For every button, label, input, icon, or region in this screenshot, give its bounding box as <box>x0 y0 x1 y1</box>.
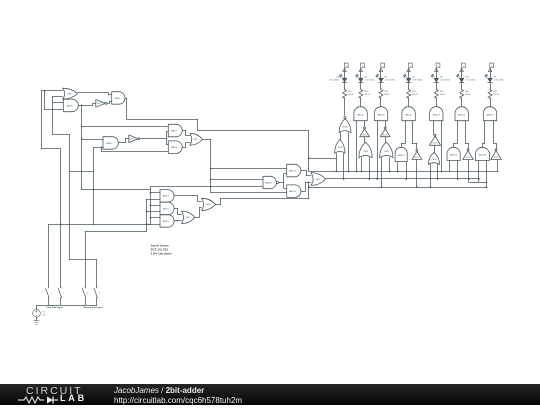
and-gate AND8 <box>168 141 182 154</box>
svg-text:NOT3: NOT3 <box>466 157 471 159</box>
wire LED to resistor R15 <box>490 82 492 89</box>
node junction OR6b bus2 <box>343 178 345 180</box>
or-gate OR9 <box>380 142 393 158</box>
wire AND18 input B drop <box>486 161 488 188</box>
svg-text:AND14: AND14 <box>377 113 385 116</box>
wire OR4 output to OR5 <box>195 208 202 218</box>
wire AND5 output run <box>125 98 198 120</box>
wire flag to LED D7 <box>408 72 410 78</box>
wire NOT1 output to AND5 <box>107 101 112 103</box>
and-gate AND2 <box>160 202 174 215</box>
label D9 value <box>494 77 505 82</box>
inverter NOT6 <box>491 149 502 160</box>
wire NOT5 input drop <box>416 159 418 187</box>
wire AND20 input A drop <box>449 161 451 172</box>
label D7 value <box>412 77 423 82</box>
wire AND10 output to OR3 <box>301 171 311 176</box>
inverter NOT3 <box>463 149 474 160</box>
svg-text:NOT7: NOT7 <box>362 134 367 136</box>
wire LED to resistor R10 <box>344 82 346 89</box>
wire AND5 net vertical drop <box>308 131 310 172</box>
node flag column 5 <box>434 63 440 72</box>
wire SW4 horizontal <box>70 259 97 261</box>
wire SW2 vertical <box>60 149 62 288</box>
wire LED to resistor R11 <box>360 82 362 89</box>
wire AND4 output to NOT2 <box>118 139 129 143</box>
node junction OR11a bus3 <box>430 186 432 188</box>
resistor R14 <box>434 89 438 99</box>
switch SW2 <box>58 287 64 305</box>
wire resistor to AND19 <box>490 98 492 107</box>
svg-text:a: a <box>438 66 439 68</box>
svg-text:AND20: AND20 <box>450 153 458 156</box>
LED D10 <box>457 75 464 83</box>
logo diode symbol <box>47 397 53 404</box>
and-gate AND16 <box>402 107 415 121</box>
svg-text:AND17: AND17 <box>433 113 441 116</box>
and-gate AND1 <box>160 190 174 203</box>
inverter NOT4 <box>429 134 440 145</box>
inverter NOT5 <box>412 149 422 159</box>
svg-text:AND21: AND21 <box>458 113 466 116</box>
wire OR6 input A drop <box>336 154 338 172</box>
wire flag to LED D10 <box>461 72 463 78</box>
node junctions on OR2 vertical <box>210 168 212 188</box>
switch SW1 <box>46 287 52 305</box>
svg-text:NOT8: NOT8 <box>383 134 388 136</box>
node junction OR9b bus1 <box>389 171 391 173</box>
nor-gate NOR2 <box>339 117 351 133</box>
inverter NOT8 <box>380 127 390 137</box>
node junction NOR2b bus1 <box>348 171 350 173</box>
LED D6 <box>376 75 383 83</box>
logo LAB text <box>60 393 87 403</box>
svg-text:AND19: AND19 <box>486 113 494 116</box>
svg-text:OR8: OR8 <box>363 151 368 153</box>
label V1 value <box>42 311 46 316</box>
or-gate OR2 <box>190 133 203 145</box>
resistor R13 <box>407 89 411 99</box>
wire vertical x93.6 <box>93 147 95 224</box>
wire NOT3 input drop <box>468 160 470 183</box>
wire OR6 output to NOR2 <box>340 133 342 140</box>
label D5 value <box>364 77 375 82</box>
wire AND6 output vertical <box>81 105 83 189</box>
label First 2-bit input <box>47 306 63 309</box>
wire OR8 input B drop <box>369 158 371 179</box>
wire bus1 y171.5 <box>309 171 498 173</box>
and-gate AND15 <box>395 147 407 161</box>
wire bus4 segment y182.3 <box>469 182 487 184</box>
wire SW1 horizontal to cluster C <box>48 224 150 226</box>
wire AND18 input A drop <box>478 161 480 183</box>
svg-text:AND1: AND1 <box>163 195 170 198</box>
wire AND2 output to OR4 <box>174 208 181 214</box>
svg-text:500 Ω: 500 Ω <box>384 94 390 96</box>
and-gate AND3 <box>160 215 174 228</box>
logo resistor symbol <box>18 397 44 403</box>
switch SW4 <box>94 287 100 305</box>
wire NAND1 output <box>279 182 284 184</box>
svg-text:OR4: OR4 <box>185 217 190 219</box>
wire OR8 output to NOT7 <box>364 137 366 143</box>
resistor R11 <box>359 89 363 99</box>
wire SW3 horizontal to cluster C <box>85 231 147 233</box>
wire resistor to AND21 <box>461 98 463 107</box>
or-gate OR1 <box>63 88 78 99</box>
or-gate OR4 <box>182 211 195 224</box>
wire flag to LED D4 <box>344 72 346 78</box>
label D4 value <box>329 77 340 82</box>
wire OR1 input B <box>53 96 63 98</box>
node flag column 6 <box>460 63 465 72</box>
label R10 value <box>348 91 354 96</box>
wire AND15 input B drop <box>406 162 408 180</box>
wire AND17 input B drop <box>441 121 443 172</box>
wire OR11 input B drop <box>437 165 439 180</box>
wire AND5 net long horizontal <box>198 119 309 130</box>
wire NOT8 output to AND14 <box>385 121 387 127</box>
wire SW4 vertical <box>96 260 98 287</box>
wire NOT6 input to bus1 end <box>497 160 499 172</box>
wire AND6 output to NOT1 <box>78 103 96 105</box>
and-gate AND13 <box>354 107 367 121</box>
switch SW3 <box>82 287 88 305</box>
voltage source V1 <box>33 305 41 321</box>
svg-text:1: 1 <box>50 293 51 295</box>
wire AND20 input B drop <box>457 161 459 180</box>
wire AND10 input A <box>211 168 287 170</box>
wire SW4 vertical riser <box>69 135 71 260</box>
wire resistor to AND16 <box>408 98 410 107</box>
svg-text:1.7V, 50/50: 1.7V, 50/50 <box>465 80 476 82</box>
and-gate AND5 <box>112 92 125 105</box>
wire LED to resistor R16 <box>461 82 463 89</box>
svg-text:OR1: OR1 <box>67 93 72 95</box>
wire NOT4 output to AND17 <box>433 121 435 135</box>
svg-text:NOR2: NOR2 <box>342 126 349 128</box>
wire NOT7 output to AND13 <box>364 121 366 127</box>
wire NOT6 output to AND19 <box>494 121 497 149</box>
label circuit URL <box>114 396 242 405</box>
wire OR9 input A drop <box>381 158 383 187</box>
wire vertical x146.7 <box>146 199 148 232</box>
svg-text:a: a <box>463 66 464 68</box>
svg-text:500 Ω: 500 Ω <box>465 94 471 96</box>
CircuitLab logo <box>26 385 83 397</box>
wire AND7 output to OR2 <box>182 131 190 136</box>
wire LED to resistor R14 <box>436 82 438 89</box>
or-gate OR3 <box>311 173 326 186</box>
resistor R12 <box>379 89 383 99</box>
and-gate AND10 <box>287 164 301 177</box>
wire flag to LED D8 <box>436 72 438 78</box>
wire to OR6 input <box>309 158 337 160</box>
node junction OR6a bus1 <box>335 171 337 173</box>
node flag column 4 <box>407 63 412 72</box>
wire NOT3 output to AND21 <box>465 121 468 149</box>
wire bus3 y187.1 <box>309 187 487 189</box>
wire LED to resistor R13 <box>408 82 410 89</box>
node junction AND14a bus2 <box>376 178 378 180</box>
wire bracket stubs <box>166 132 168 145</box>
resistor R10 <box>343 89 347 99</box>
wire AND11 input B <box>211 192 287 194</box>
node flag column 1 <box>343 63 348 72</box>
LED D4 <box>339 75 346 83</box>
wire vertical bracket x52.9 <box>52 96 54 134</box>
node junction AND6 output <box>81 105 83 107</box>
wire vertical from OR1 branch <box>41 91 43 149</box>
resistor R16 <box>460 89 464 99</box>
svg-text:500 Ω: 500 Ω <box>348 94 354 96</box>
node junctions AND2 <box>146 204 151 212</box>
wire LED to resistor R12 <box>380 82 382 89</box>
inverter NOT7 <box>360 127 370 137</box>
wire OR9 output to NOT8 <box>385 137 387 143</box>
svg-text:AND18: AND18 <box>479 153 487 156</box>
svg-text:1.7V, 50/50: 1.7V, 50/50 <box>412 80 423 82</box>
svg-text:1.7V, 50/50: 1.7V, 50/50 <box>385 80 396 82</box>
svg-text:2: 2 <box>63 293 64 295</box>
and-gate AND18 <box>475 147 489 160</box>
wire NOT2 output bracket <box>166 132 168 145</box>
node junction x69.5 on SW1 wire <box>69 223 71 225</box>
wire NOR2 input B drop <box>348 133 350 172</box>
or-gate OR5 <box>202 198 216 210</box>
wire vertical stub <box>44 91 46 110</box>
svg-text:2 Bit Calculator: 2 Bit Calculator <box>151 252 173 256</box>
node junction AND1 a <box>150 192 152 194</box>
svg-text:AND10: AND10 <box>289 169 297 172</box>
wire NAND1 input A <box>211 179 263 181</box>
label R14 value <box>440 91 446 96</box>
wire OR6 input B drop <box>343 154 345 180</box>
svg-text:a: a <box>491 66 492 68</box>
svg-text:NOT6: NOT6 <box>494 157 499 159</box>
and-gate AND19 <box>483 107 496 121</box>
wire AND2 inputs <box>147 206 160 212</box>
svg-text:1.7V, 50/50: 1.7V, 50/50 <box>364 80 375 82</box>
node junction AND17b bus1 <box>441 171 443 173</box>
label R16 value <box>465 91 471 96</box>
wire OR8 input A drop <box>361 158 363 172</box>
wire AND20 output to AND21 <box>454 121 458 148</box>
svg-text:OR9: OR9 <box>384 151 389 153</box>
svg-text:AND15: AND15 <box>398 154 406 157</box>
node junction AND4 input A <box>81 138 83 140</box>
wire flag to LED D5 <box>360 72 362 78</box>
svg-text:a: a <box>346 66 347 68</box>
svg-text:OR2: OR2 <box>193 139 198 141</box>
node junctions on SW1 wire <box>60 223 94 225</box>
wire bus2 y179 from OR3 output <box>325 178 479 180</box>
wire OR2 output vertical <box>202 139 210 193</box>
node flag column 7 <box>488 63 493 72</box>
node junction AND15a bus1 <box>397 171 399 173</box>
svg-text:a: a <box>382 66 383 68</box>
node junction OR8a bus1 <box>361 171 363 173</box>
svg-text:NAND1: NAND1 <box>265 181 273 184</box>
and-gate AND11 <box>287 185 301 198</box>
node junction NOT5 bus3 <box>416 186 418 188</box>
label R15 value <box>493 91 499 96</box>
and-gate AND17 <box>430 107 443 121</box>
wire NOT5 output to AND16 <box>412 121 417 150</box>
wire AND4 input B <box>94 147 103 149</box>
and-gate AND4 <box>103 137 118 150</box>
svg-text:First 2-bit input: First 2-bit input <box>47 306 63 309</box>
wire AND3 inputs <box>147 218 160 225</box>
wire AND6 input A <box>53 102 63 104</box>
inverter NOT2 <box>129 135 140 143</box>
wire AND7 input A feeder <box>82 126 169 128</box>
wire flag to LED D9 <box>490 72 492 78</box>
wire switch common bus <box>37 305 97 307</box>
label author and project <box>114 386 204 395</box>
label R13 value <box>412 91 418 96</box>
svg-text:AND16: AND16 <box>405 113 413 116</box>
svg-text:OR3: OR3 <box>315 179 320 181</box>
node junction AND4 input B <box>101 147 103 149</box>
svg-text:OR6: OR6 <box>338 147 343 149</box>
wire resistor to AND17 <box>436 98 438 107</box>
wire jog to x69.5 <box>53 134 70 136</box>
label D10 value <box>465 77 476 82</box>
and-gate AND21 <box>455 107 468 121</box>
LED D7 <box>404 75 411 83</box>
svg-text:OR5: OR5 <box>206 204 211 206</box>
node junction on OR1 input <box>44 90 46 92</box>
svg-text:1.7V, 50/50: 1.7V, 50/50 <box>329 80 340 82</box>
node junction bus3 tap <box>308 186 310 188</box>
wire AND11 output to OR3 <box>301 182 311 191</box>
wire OR11 output to NOT4 <box>434 145 436 152</box>
svg-text:Second 2-bit input: Second 2-bit input <box>83 306 102 309</box>
node flag column 3 <box>379 63 384 72</box>
wire AND8 output to OR2 <box>182 143 190 148</box>
LED D8 <box>431 75 438 83</box>
svg-text:NOT4: NOT4 <box>433 143 438 145</box>
wire SW3 vertical <box>85 232 87 287</box>
wire NOT2 output <box>140 138 166 140</box>
node junction NOT3 bus2 crossing <box>468 178 470 180</box>
svg-text:a: a <box>410 66 411 68</box>
svg-text:AND11: AND11 <box>289 190 297 193</box>
label Second 2-bit input <box>83 306 102 309</box>
svg-text:AND8: AND8 <box>171 146 178 149</box>
wire AND8 input B feeder <box>102 147 169 151</box>
label title block <box>151 244 173 256</box>
wire top feeder to NAND1 <box>150 186 263 188</box>
inverter NOT1 <box>96 100 107 108</box>
label R11 value <box>364 91 370 96</box>
node junction AND18a bus2 end <box>478 178 480 180</box>
svg-text:AND6: AND6 <box>67 104 74 107</box>
wire OR1 input A <box>41 90 62 92</box>
node junction AND13a bus1 <box>356 171 358 173</box>
wire resistor to AND13 <box>360 98 362 107</box>
wire resistor to NOR2 <box>344 98 346 116</box>
label D6 value <box>385 77 396 82</box>
node junctions AND18b <box>486 181 488 188</box>
wire AND1 inputs <box>147 193 160 200</box>
wire AND6 input B <box>45 109 63 111</box>
svg-text:1.7V, 50/50: 1.7V, 50/50 <box>494 80 505 82</box>
wire AND4 input A <box>82 139 103 141</box>
wire AND3 output to OR4 <box>174 219 181 222</box>
svg-text:500 Ω: 500 Ω <box>412 94 418 96</box>
wire horizontal y171.6 <box>70 171 94 173</box>
label R12 value <box>384 91 390 96</box>
nand-gate NAND1 <box>263 176 279 188</box>
node junction at y158 <box>308 157 310 159</box>
svg-text:AND5: AND5 <box>114 97 121 100</box>
and-gate AND6 <box>63 99 78 112</box>
svg-text:a: a <box>362 66 363 68</box>
wire vertical x150.4 <box>150 187 152 225</box>
wire OR9 input B drop <box>389 158 391 172</box>
svg-text:NOT5: NOT5 <box>415 157 420 159</box>
or-gate OR11 <box>428 152 439 164</box>
wire AND15 output to AND16 <box>401 121 405 148</box>
svg-text:AND13: AND13 <box>357 113 365 116</box>
node junction OR9a bus3 <box>381 186 383 188</box>
node junction on feeder <box>81 126 83 128</box>
wire AND1 output to OR5 <box>174 196 201 202</box>
resistor R15 <box>488 89 492 99</box>
LED D9 <box>485 75 492 83</box>
wire OR5 output run <box>216 199 309 205</box>
svg-text:500 Ω: 500 Ω <box>364 94 370 96</box>
svg-text:NOT2: NOT2 <box>130 138 135 140</box>
node junctions AND3 <box>146 217 151 225</box>
node junction y189.8 <box>93 189 95 191</box>
wire AND14 input A drop <box>377 121 379 179</box>
wire AND18 output to AND19 <box>482 121 484 148</box>
wire OR11 input A drop <box>430 165 432 188</box>
svg-text:500 Ω: 500 Ω <box>440 94 446 96</box>
svg-text:AND7: AND7 <box>171 129 178 132</box>
svg-text:1.7V, 50/50: 1.7V, 50/50 <box>440 80 451 82</box>
svg-text:AND2: AND2 <box>163 207 170 210</box>
svg-text:AND4: AND4 <box>107 142 114 145</box>
and-gate AND7 <box>168 124 182 137</box>
node junction OR11b bus2 <box>437 178 439 180</box>
wire SW1 vertical <box>48 224 50 287</box>
wire OR5 net vertical to OR3 <box>308 182 310 199</box>
ground <box>34 321 39 325</box>
node flag column 2 <box>359 63 365 72</box>
wire horizontal y189.8 to cluster C <box>82 189 151 191</box>
node junction AND15b bus2 <box>405 178 407 180</box>
svg-text:500 Ω: 500 Ω <box>493 94 499 96</box>
or-gate OR8 <box>359 142 372 158</box>
node junction OR8b bus2 <box>368 178 370 180</box>
label D8 value <box>440 77 451 82</box>
wire resistor to AND14 <box>380 98 382 107</box>
LED D5 <box>356 75 363 83</box>
and-gate AND14 <box>374 107 387 121</box>
wire AND15 input A drop <box>397 162 399 172</box>
node junction AND20b bus2 <box>457 178 459 180</box>
wire AND13 input A drop <box>356 121 358 172</box>
wire flag to LED D6 <box>380 72 382 78</box>
svg-text:OR11: OR11 <box>431 159 437 161</box>
svg-text:4: 4 <box>99 293 100 295</box>
wire NAND1 output bracket <box>284 174 287 189</box>
svg-text:AND3: AND3 <box>163 220 170 223</box>
